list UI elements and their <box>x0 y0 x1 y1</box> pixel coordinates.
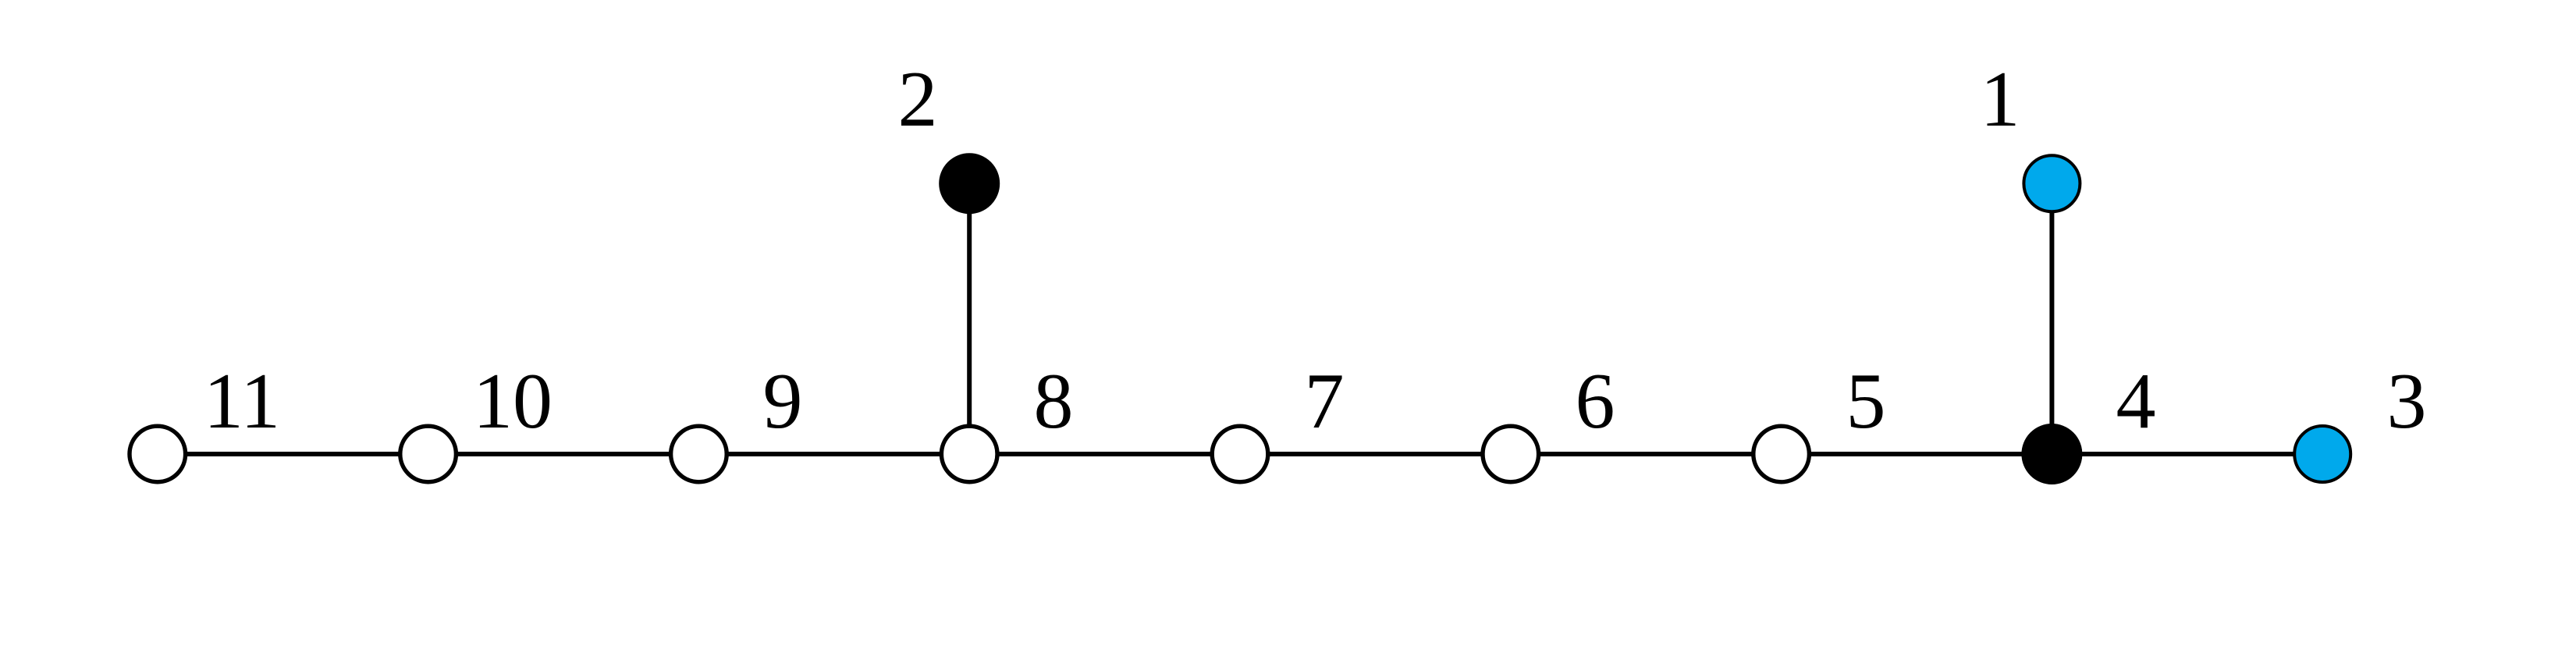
svg-text:11: 11 <box>204 357 280 445</box>
node 4 (black filled circle, branch point) <box>2023 426 2080 483</box>
node 1 (cyan filled circle, above node 4) <box>2023 155 2080 211</box>
node 7 (open circle) <box>1212 426 1268 482</box>
wire: vertical edge node 2 to node 8 <box>967 183 972 454</box>
node 2 (black filled circle, above node 8) <box>941 155 998 212</box>
svg-text:4: 4 <box>2116 357 2156 445</box>
svg-text:2: 2 <box>898 55 938 144</box>
node 11 (open circle) <box>130 426 186 482</box>
svg-text:9: 9 <box>763 357 803 445</box>
svg-text:8: 8 <box>1034 357 1074 445</box>
svg-text:5: 5 <box>1846 357 1886 445</box>
svg-text:6: 6 <box>1576 357 1615 445</box>
node 9 (open circle) <box>671 426 727 482</box>
svg-text:7: 7 <box>1305 357 1345 445</box>
node 10 (open circle) <box>400 426 457 482</box>
wire: vertical edge node 1 to node 4 <box>2049 183 2054 454</box>
svg-text:10: 10 <box>473 357 553 445</box>
node 5 (open circle) <box>1753 426 1810 482</box>
node 8 (open circle, branch point) <box>941 426 997 482</box>
svg-text:1: 1 <box>1981 55 2020 144</box>
node 3 (cyan filled circle) <box>2294 426 2350 482</box>
svg-text:3: 3 <box>2387 357 2427 445</box>
wire: horizontal chain from node 11 to node 3 <box>158 452 2322 456</box>
node 6 (open circle) <box>1483 426 1539 482</box>
